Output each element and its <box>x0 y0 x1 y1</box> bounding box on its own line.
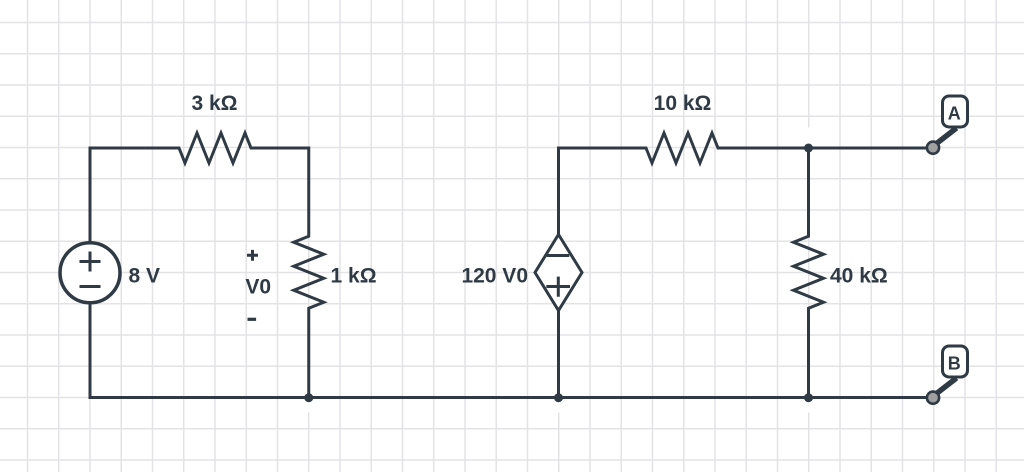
wire bottom rail <box>90 304 926 398</box>
label plus of V0 <box>247 250 258 261</box>
junction dot bottom node 2 <box>554 393 563 402</box>
wire left loop with resistor R1 3k and resistor R2 1k <box>90 133 324 398</box>
wire dep-source lower <box>557 310 560 397</box>
svg-text:8 V: 8 V <box>129 265 161 288</box>
svg-text:120 V0: 120 V0 <box>461 265 528 288</box>
junction dot bottom node 1 <box>304 393 313 402</box>
wire halo below bottom junction 2 <box>556 402 561 413</box>
wire halo above top junction <box>806 128 811 144</box>
svg-text:40 kΩ: 40 kΩ <box>830 265 888 288</box>
voltage source V1 8V <box>60 243 120 303</box>
wire halo below bottom junction 1 <box>307 402 312 413</box>
svg-text:B: B <box>948 353 961 373</box>
terminal B <box>927 346 968 404</box>
wire 40k branch with resistor R4 40k <box>794 148 824 398</box>
label minus of V0 <box>248 318 257 321</box>
junction dot bottom node 3 <box>804 393 813 402</box>
wire halo below bottom junction 3 <box>806 402 811 413</box>
wire top-right with resistor R3 10k <box>559 133 927 235</box>
junction dot top node <box>804 144 813 153</box>
svg-text:1 kΩ: 1 kΩ <box>331 265 377 288</box>
terminal A <box>927 96 968 154</box>
dependent source U1 120V0 <box>535 235 582 311</box>
svg-text:3 kΩ: 3 kΩ <box>191 92 237 115</box>
svg-text:A: A <box>948 103 961 123</box>
svg-text:10 kΩ: 10 kΩ <box>654 92 712 115</box>
svg-text:V0: V0 <box>245 275 271 298</box>
